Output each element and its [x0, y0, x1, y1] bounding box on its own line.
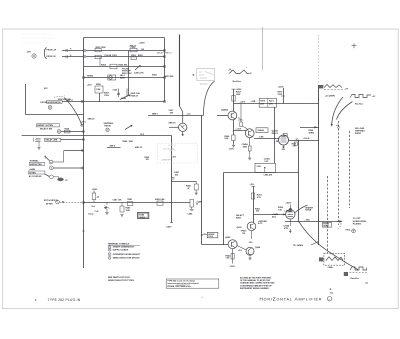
svg-text:C259: C259 — [113, 90, 118, 92]
svg-text:NORMAL: NORMAL — [30, 160, 40, 163]
svg-text:Q264: Q264 — [255, 246, 261, 249]
svg-text:TO CRT: TO CRT — [353, 218, 361, 220]
svg-text:C+R: C+R — [95, 211, 99, 213]
svg-text:CONCERNING EARLIER TYPES OF: CONCERNING EARLIER TYPES OF — [240, 284, 272, 287]
svg-text:FROM +W: FROM +W — [47, 50, 57, 52]
svg-text:TP+ SAWS: TP+ SAWS — [293, 244, 304, 247]
svg-text:1 Amp: 1 Amp — [88, 213, 94, 216]
svg-text:Run/Out: Run/Out — [355, 103, 363, 106]
svg-text:DELAY LINE 10: DELAY LINE 10 — [157, 52, 172, 55]
svg-text:-1 BE: -1 BE — [259, 136, 265, 138]
svg-text:220: 220 — [256, 211, 259, 213]
svg-text:Q293: Q293 — [237, 227, 243, 229]
svg-text:2N274: 2N274 — [272, 132, 279, 135]
svg-text:DELAY LINE: DELAY LINE — [46, 139, 58, 142]
svg-text:FROM -W: FROM -W — [47, 56, 56, 58]
svg-text:100K: 100K — [129, 141, 134, 143]
svg-text:Q264A: Q264A — [221, 109, 228, 112]
svg-text:-100V: -100V — [229, 149, 235, 151]
svg-text:FROM: FROM — [41, 102, 47, 104]
svg-text:R259: R259 — [122, 98, 127, 100]
svg-text:+10 (SWP): +10 (SWP) — [325, 95, 335, 97]
svg-text:PLATES: PLATES — [353, 223, 362, 226]
svg-text:PULSE: PULSE — [105, 55, 112, 57]
svg-text:8.2K: 8.2K — [225, 138, 230, 140]
svg-text:+ SEC: + SEC — [305, 219, 311, 221]
svg-text:B: B — [193, 74, 195, 77]
svg-text:+150: +150 — [250, 184, 254, 186]
svg-text:+225V: +225V — [35, 141, 42, 143]
svg-text:R255 100K: R255 100K — [122, 73, 132, 75]
svg-text:CHANGES AND CORRECTION NOTED: CHANGES AND CORRECTION NOTED — [240, 282, 275, 285]
svg-text:47K: 47K — [269, 103, 273, 106]
svg-text:HORIZONTAL: HORIZONTAL — [353, 220, 367, 223]
svg-text:INSTRUMENT SERIAL NUMBER: INSTRUMENT SERIAL NUMBER — [240, 287, 269, 290]
svg-text:R257 SEL: R257 SEL — [165, 76, 175, 78]
svg-text:SWEEP GENERATOR: SWEEP GENERATOR — [113, 246, 135, 249]
svg-text:13 R: 13 R — [140, 134, 145, 136]
svg-text:R258: R258 — [65, 129, 70, 131]
svg-text:AC-COUPLED: AC-COUPLED — [29, 175, 42, 178]
svg-text:60c: 60c — [330, 292, 333, 294]
svg-text:100K: 100K — [126, 210, 131, 212]
svg-text:+62: +62 — [365, 282, 368, 284]
svg-text:Run/Gen: Run/Gen — [233, 81, 242, 83]
svg-text:1.5M: 1.5M — [96, 89, 101, 91]
svg-text:C290: C290 — [257, 166, 261, 168]
svg-text:-25V: -25V — [27, 52, 32, 54]
svg-text:SEMICONDUCTOR DEVICE: SEMICONDUCTOR DEVICE — [113, 258, 140, 260]
svg-text:AS USED AT THE FIRST PRINTING: AS USED AT THE FIRST PRINTING — [240, 276, 272, 279]
svg-text:series high working copy: series high working copy — [22, 40, 51, 44]
svg-text:-150: -150 — [281, 149, 285, 151]
svg-text:R250 750K: R250 750K — [96, 47, 107, 49]
svg-text:+1.5 R: +1.5 R — [235, 128, 241, 130]
svg-text:7.5K: 7.5K — [278, 210, 283, 212]
svg-text:47K: 47K — [260, 103, 264, 106]
svg-text:+100V: +100V — [139, 43, 146, 45]
svg-text:-150V: -150V — [230, 266, 236, 268]
svg-text:TYPE 262 circuit ref all volta: TYPE 262 circuit ref all voltage — [167, 280, 195, 283]
svg-text:manual ref type 262 horiz amp: manual ref type 262 horiz amp — [22, 36, 58, 40]
svg-text:+300V: +300V — [92, 189, 99, 191]
svg-text:R295B: R295B — [305, 210, 312, 212]
svg-text:100: 100 — [242, 233, 245, 235]
svg-text:-150: -150 — [249, 242, 253, 244]
svg-text:RATIO: RATIO — [355, 132, 362, 135]
svg-text:OF THIS MANUAL TO AVOID THE: OF THIS MANUAL TO AVOID THE — [240, 279, 271, 282]
svg-text:+ MAG/OFF: + MAG/OFF — [161, 159, 172, 162]
svg-text:R283 6.8K: R283 6.8K — [155, 199, 165, 201]
svg-text:+25V: +25V — [87, 84, 92, 86]
svg-text:PROBE: TEK P6006 w/ xxx: PROBE: TEK P6006 w/ xxx — [167, 286, 192, 288]
svg-text:TYPE 262 PLUG-IN: TYPE 262 PLUG-IN — [48, 298, 81, 302]
svg-text:+15C: +15C — [238, 120, 243, 122]
svg-text:100K: 100K — [236, 94, 241, 96]
svg-text:Rate/Out: Rate/Out — [351, 277, 360, 280]
svg-text:SWP/ATTEN: SWP/ATTEN — [30, 163, 42, 166]
svg-text:SELECT SW: SELECT SW — [40, 128, 52, 130]
svg-text:HORIZ: HORIZ — [323, 226, 329, 228]
svg-text:OPERATING MODE SELECT: OPERATING MODE SELECT — [113, 253, 142, 256]
svg-text:B254 SEL: B254 SEL — [119, 64, 129, 67]
svg-text:1M: 1M — [141, 49, 144, 51]
svg-text:SER 10: SER 10 — [130, 45, 137, 47]
svg-text:HORIZ: HORIZ — [87, 75, 94, 77]
svg-text:2.2M: 2.2M — [278, 94, 283, 96]
svg-text:100: 100 — [293, 146, 296, 148]
svg-text:C2: C2 — [65, 180, 67, 182]
svg-text:SweepGen: SweepGen — [200, 83, 209, 85]
svg-text:MAG 1X: MAG 1X — [135, 146, 143, 149]
svg-text:HORIZONTAL: HORIZONTAL — [48, 101, 62, 104]
svg-text:+GAIN: +GAIN — [29, 168, 36, 171]
svg-text:BULB: BULB — [140, 217, 146, 219]
svg-text:R259 2X: R259 2X — [131, 96, 139, 98]
svg-text:ATTEN: ATTEN — [29, 171, 36, 174]
svg-text:SEE PARTS LIST FOR: SEE PARTS LIST FOR — [108, 276, 130, 279]
svg-text:SWP/MAG: SWP/MAG — [104, 122, 114, 125]
svg-text:V294+: V294+ — [328, 266, 335, 269]
svg-text:it pays and read tek scope: it pays and read tek scope — [22, 32, 53, 36]
svg-text:TERMINAL SYMBOLS: TERMINAL SYMBOLS — [108, 243, 130, 246]
svg-text:ATTEN: ATTEN — [46, 203, 53, 206]
svg-text:SER 5: SER 5 — [152, 114, 159, 116]
svg-text:5-25: 5-25 — [265, 161, 269, 163]
svg-text:SUPPLY LEADS: SUPPLY LEADS — [113, 248, 129, 251]
svg-text:47: 47 — [188, 187, 190, 190]
svg-text:REGIS: REGIS — [105, 126, 112, 128]
svg-text:Q262: Q262 — [225, 237, 231, 239]
svg-text:C255 4.7K: C255 4.7K — [134, 72, 144, 75]
svg-text:SER 18: SER 18 — [169, 123, 177, 125]
svg-text:horiz display: horiz display — [163, 149, 176, 151]
svg-text:NOTE 2: NOTE 2 — [168, 145, 177, 147]
svg-text:+100 R: +100 R — [303, 138, 310, 140]
svg-text:+12B: +12B — [251, 101, 256, 103]
svg-text:POS: POS — [209, 236, 214, 238]
svg-text:1.2K: 1.2K — [226, 258, 231, 260]
svg-text:180K: 180K — [243, 146, 248, 148]
svg-text:+0.6: +0.6 — [238, 250, 242, 252]
svg-text:SEMICONDUCTOR TYPES: SEMICONDUCTOR TYPES — [108, 280, 135, 282]
svg-text:V262A: V262A — [257, 129, 264, 132]
svg-text:+12 R: +12 R — [240, 102, 246, 104]
svg-text:+100V: +100V — [236, 89, 243, 91]
svg-text:HORIZONTAL AMPLIFIER: HORIZONTAL AMPLIFIER — [260, 296, 323, 301]
svg-text:C294 470: C294 470 — [264, 173, 274, 176]
svg-text:25: 25 — [196, 204, 198, 206]
svg-text:+150: +150 — [172, 156, 176, 158]
svg-text:+150V: +150V — [166, 227, 173, 229]
svg-text:ADJ: ADJ — [272, 215, 276, 218]
svg-text:TERM: TERM — [309, 133, 315, 135]
svg-text:125: 125 — [146, 159, 149, 161]
svg-text:SER.18: SER.18 — [88, 119, 96, 121]
svg-text:measurements at line volt nomi: measurements at line volt nominal — [167, 282, 198, 285]
svg-text:4.7K: 4.7K — [257, 196, 262, 199]
svg-text:SER 9: SER 9 — [110, 146, 115, 148]
svg-text:+350V: +350V — [285, 203, 292, 205]
svg-text:SWP CAL: SWP CAL — [131, 92, 141, 95]
svg-text:+350V: +350V — [278, 87, 285, 89]
svg-text:A-7F: A-7F — [258, 222, 263, 225]
